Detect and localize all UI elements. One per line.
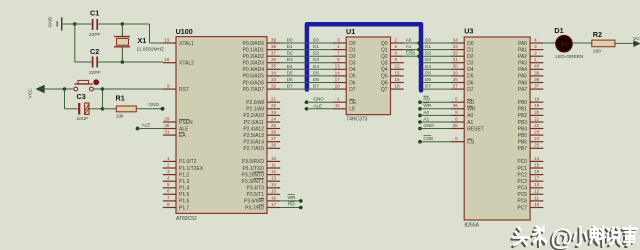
U1 pin 3 D0 xyxy=(333,37,356,46)
U3 pin 36 WR xyxy=(451,103,476,112)
svg-text:18: 18 xyxy=(534,97,540,102)
svg-text:38: 38 xyxy=(271,44,277,49)
svg-text:P2.0/A8: P2.0/A8 xyxy=(246,100,264,106)
power terminal GND (right of R1) xyxy=(149,102,165,111)
svg-text:D5: D5 xyxy=(349,74,356,80)
svg-text:A0: A0 xyxy=(423,110,429,115)
junction node B (XTAL1 net) xyxy=(121,22,125,26)
junction node E xyxy=(101,87,105,91)
svg-text:ALE: ALE xyxy=(142,123,151,128)
svg-text:40: 40 xyxy=(534,64,540,69)
U3 pin 2 PA2 xyxy=(518,51,543,60)
svg-text:Q2: Q2 xyxy=(381,54,388,60)
svg-text:P2.4/A12: P2.4/A12 xyxy=(243,126,264,132)
svg-text:P3.0/RXD: P3.0/RXD xyxy=(242,159,265,165)
U100 pin 9 RST xyxy=(163,84,189,93)
U100 pin 6 P1.5 xyxy=(163,189,190,198)
svg-text:D0: D0 xyxy=(349,41,356,47)
svg-text:D7: D7 xyxy=(425,84,431,89)
svg-text:D1: D1 xyxy=(313,44,319,49)
wire net D6 from U100 P0.6 to U1 D6 xyxy=(280,82,333,84)
svg-text:19: 19 xyxy=(534,103,540,108)
U100 pin 34 P0.5/AD5 xyxy=(243,70,281,79)
svg-text:P0.7/AD7: P0.7/AD7 xyxy=(243,87,265,93)
svg-text:D7: D7 xyxy=(349,87,356,93)
U3 pin 12 PC5 xyxy=(517,189,543,198)
svg-text:RD: RD xyxy=(467,100,475,106)
svg-text:GND: GND xyxy=(48,16,54,27)
svg-text:PC0: PC0 xyxy=(517,159,527,165)
svg-text:P0.1/AD1: P0.1/AD1 xyxy=(243,47,265,53)
svg-text:P0.2/AD2: P0.2/AD2 xyxy=(243,54,265,60)
svg-text:R1: R1 xyxy=(116,94,125,103)
svg-text:15: 15 xyxy=(271,189,277,194)
svg-text:RESET: RESET xyxy=(467,126,484,132)
svg-text:P3.4/T0: P3.4/T0 xyxy=(246,186,264,192)
U3 pin 22 PB4 xyxy=(518,123,544,132)
svg-text:1: 1 xyxy=(167,156,170,161)
net label A0 xyxy=(406,37,412,42)
svg-text:D5: D5 xyxy=(313,70,319,75)
U100 pin 12 P3.2/INT0 xyxy=(241,169,280,178)
svg-text:33: 33 xyxy=(453,44,459,49)
wire net A1 from U1 Q1 xyxy=(404,49,419,51)
svg-text:14: 14 xyxy=(534,156,540,161)
wire R1 to GND terminal xyxy=(136,108,162,110)
U3 pin 8 A1 xyxy=(451,116,474,125)
U3 pin 14 PC0 xyxy=(517,156,543,165)
svg-text:D5: D5 xyxy=(467,74,474,80)
wire to U100 XTAL1 pin xyxy=(150,42,163,44)
U100 pin 11 P3.1/TXD xyxy=(242,162,280,171)
svg-text:32: 32 xyxy=(271,84,277,89)
power symbol VCC (right) xyxy=(633,36,640,46)
svg-text:35: 35 xyxy=(453,123,459,128)
svg-text:16: 16 xyxy=(534,169,540,174)
node A0 wire end xyxy=(417,41,421,45)
svg-text:D4: D4 xyxy=(287,64,293,69)
svg-text:GND: GND xyxy=(149,102,160,107)
net label D0 (at U3) xyxy=(425,38,431,43)
svg-text:PB1: PB1 xyxy=(518,107,528,113)
wire button to node E xyxy=(93,88,102,90)
node CSB wire end xyxy=(417,54,421,58)
svg-text:D3: D3 xyxy=(313,57,319,62)
svg-text:WR: WR xyxy=(288,195,296,200)
svg-text:6: 6 xyxy=(167,189,170,194)
svg-text:5: 5 xyxy=(455,97,458,102)
svg-text:12: 12 xyxy=(534,189,540,194)
svg-text:D3: D3 xyxy=(467,61,474,67)
net label D7 (left) xyxy=(287,84,293,89)
svg-text:Q1: Q1 xyxy=(381,47,388,53)
net label D5 (at U3) xyxy=(425,70,431,75)
U1 pin 8 D3 xyxy=(333,57,356,66)
U100 pin 28 P2.7/A15 xyxy=(243,143,280,152)
svg-text:PC1: PC1 xyxy=(517,166,527,172)
svg-text:C2: C2 xyxy=(90,47,99,56)
capacitor C1 xyxy=(89,9,101,39)
svg-text:D5: D5 xyxy=(425,70,431,75)
U100 pin 8 P1.7 xyxy=(163,202,190,211)
svg-text:34: 34 xyxy=(453,37,459,42)
svg-text:ALE: ALE xyxy=(179,126,189,132)
svg-text:18: 18 xyxy=(335,84,341,89)
svg-text:37: 37 xyxy=(534,84,540,89)
svg-text:17: 17 xyxy=(271,202,277,207)
svg-text:39: 39 xyxy=(534,70,540,75)
svg-text:AT89C52: AT89C52 xyxy=(176,216,197,222)
U3 pin 24 PB6 xyxy=(518,136,544,145)
net label D2 (left) xyxy=(287,51,293,56)
button actuator red dot xyxy=(94,80,99,85)
net label D6 (left) xyxy=(287,77,293,82)
U3 pin 34 D0 xyxy=(451,37,474,46)
svg-text:X1: X1 xyxy=(138,36,147,45)
net label D7 (at U1) xyxy=(313,84,319,89)
U100 pin 33 P0.6/AD6 xyxy=(243,77,281,86)
svg-text:XTAL1: XTAL1 xyxy=(179,41,194,47)
U3 pin 19 PB1 xyxy=(518,103,544,112)
wire node E to node F xyxy=(102,89,104,109)
power symbol VCC (left) xyxy=(28,85,45,98)
svg-text:RD: RD xyxy=(423,97,430,102)
svg-text:21: 21 xyxy=(271,97,277,102)
svg-text:D0: D0 xyxy=(287,38,293,43)
svg-text:P1.7: P1.7 xyxy=(179,205,190,211)
svg-text:P1.4: P1.4 xyxy=(179,186,190,192)
svg-text:5: 5 xyxy=(167,182,170,187)
U3 pin 20 PB2 xyxy=(518,110,544,119)
U100 pin 36 P0.3/AD3 xyxy=(243,57,281,66)
svg-text:WR: WR xyxy=(423,103,431,108)
wire node E to U100 RST pin xyxy=(103,88,163,90)
svg-text:PSEN: PSEN xyxy=(179,120,193,126)
U100 pin 38 P0.1/AD1 xyxy=(243,44,281,53)
wire net A0 to U3 xyxy=(420,114,451,116)
svg-text:24: 24 xyxy=(534,136,540,141)
node WR wire start (U3) xyxy=(418,107,422,111)
svg-text:3: 3 xyxy=(534,44,537,49)
svg-text:10: 10 xyxy=(271,156,277,161)
svg-text:9: 9 xyxy=(455,110,458,115)
svg-text:P0.5/AD5: P0.5/AD5 xyxy=(243,74,265,80)
wire R2 to VCC terminal xyxy=(615,42,634,44)
net label D1 (at U3) xyxy=(425,44,431,49)
svg-text:34: 34 xyxy=(271,70,277,75)
svg-text:8255A: 8255A xyxy=(465,223,480,229)
watermark text (toutiao @xiaokui shuoshi) xyxy=(511,224,636,250)
U3 pin 40 PA4 xyxy=(518,64,543,73)
crystal X1 xyxy=(114,24,164,62)
svg-text:4: 4 xyxy=(534,37,537,42)
svg-text:D0: D0 xyxy=(313,38,319,43)
svg-text:A0: A0 xyxy=(406,37,412,42)
wire net D5 into U3 D5 xyxy=(423,75,451,77)
svg-text:24: 24 xyxy=(271,116,277,121)
wire net WR to U3 xyxy=(420,108,451,110)
svg-text:D1: D1 xyxy=(425,44,431,49)
svg-text:GND: GND xyxy=(313,97,324,102)
svg-text:25: 25 xyxy=(534,143,540,148)
resistor R2 xyxy=(592,30,615,55)
U3 pin 32 D2 xyxy=(451,51,474,60)
node CSB wire start (U3) xyxy=(418,140,422,144)
U3 pin 5 RD xyxy=(451,97,475,106)
net label WR (overline) xyxy=(288,195,296,200)
wire net A1 to U3 xyxy=(420,121,451,123)
svg-text:16: 16 xyxy=(271,195,277,200)
net label A1 xyxy=(406,44,412,49)
svg-text:Q6: Q6 xyxy=(381,80,388,86)
U100 pin 1 P1.0/T2 xyxy=(163,156,197,165)
U100 pin 31 EA xyxy=(163,130,187,139)
U3 pin 29 D5 xyxy=(451,70,474,79)
svg-text:P2.1/A9: P2.1/A9 xyxy=(246,107,264,113)
wire node D down to C3 xyxy=(64,89,66,109)
wire net CSB to U3 xyxy=(420,141,451,143)
wire net D0 from U100 P0.0 to U1 D0 xyxy=(280,42,333,44)
svg-text:15: 15 xyxy=(534,162,540,167)
svg-text:P1.2: P1.2 xyxy=(179,172,190,178)
svg-text:30: 30 xyxy=(164,123,170,128)
svg-text:9: 9 xyxy=(167,84,170,89)
wire net D3 into U3 D3 xyxy=(423,62,451,64)
svg-text:Q0: Q0 xyxy=(381,41,388,47)
wire net D1 into U3 D1 xyxy=(423,49,451,51)
svg-text:22: 22 xyxy=(534,123,540,128)
net label D7 (at U3) xyxy=(425,84,431,89)
svg-text:4: 4 xyxy=(337,44,340,49)
svg-text:A0: A0 xyxy=(467,113,473,119)
net label D4 (at U1) xyxy=(313,64,319,69)
wire D1 to R2 xyxy=(572,42,592,44)
wire U3 PA0 to D1 xyxy=(543,42,556,44)
U1 pin 17 D6 xyxy=(333,77,356,86)
wire net D3 from U100 P0.3 to U1 D3 xyxy=(280,62,333,64)
U1 pin 9 Q3 xyxy=(381,57,404,66)
svg-text:D0: D0 xyxy=(425,38,431,43)
junction node C (XTAL2 net) xyxy=(121,60,125,64)
net label D2 (at U1) xyxy=(313,51,319,56)
U100 pin 22 P2.1/A9 xyxy=(246,103,280,112)
svg-text:PA7: PA7 xyxy=(518,87,527,93)
node A0 wire start (U3) xyxy=(418,114,422,118)
net label D1 (left) xyxy=(287,44,293,49)
svg-text:A1: A1 xyxy=(467,120,473,126)
net label WR (at U3) xyxy=(423,103,431,108)
svg-text:RD: RD xyxy=(288,202,295,207)
net label D3 (at U1) xyxy=(313,57,319,62)
wire net CSB from U1 Q2 xyxy=(404,55,419,57)
U100 pin 13 P3.3/INT1 xyxy=(241,176,280,185)
IC U100 body xyxy=(176,37,267,214)
U3 pin 31 D3 xyxy=(451,57,474,66)
net label A1 (at U3) xyxy=(423,116,429,121)
net label D5 (at U1) xyxy=(313,70,319,75)
svg-text:31: 31 xyxy=(453,57,459,62)
junction node F xyxy=(101,107,105,111)
wire ALE to U1 LE xyxy=(307,108,334,110)
svg-text:D4: D4 xyxy=(425,64,431,69)
svg-text:D7: D7 xyxy=(467,87,474,93)
svg-text:3: 3 xyxy=(167,169,170,174)
U3 pin 9 A0 xyxy=(451,110,474,119)
net label ALE (at U1 LE) xyxy=(313,103,322,108)
svg-text:10k: 10k xyxy=(116,114,124,120)
svg-text:D4: D4 xyxy=(313,64,319,69)
svg-text:P3.5/T1: P3.5/T1 xyxy=(246,192,264,198)
svg-text:P3.3/INT1: P3.3/INT1 xyxy=(241,179,264,185)
svg-text:Q5: Q5 xyxy=(381,74,388,80)
wire net D7 from U100 P0.7 to U1 D7 xyxy=(280,88,333,90)
U1 pin 12 Q4 xyxy=(381,64,404,73)
U100 pin 19 XTAL1 xyxy=(163,37,194,46)
U100 pin 37 P0.2/AD2 xyxy=(243,51,281,60)
svg-text:23: 23 xyxy=(271,110,277,115)
svg-text:1: 1 xyxy=(337,97,340,102)
U3 pin 18 PB0 xyxy=(518,97,544,106)
wire C1 to node B xyxy=(97,23,122,25)
svg-text:29: 29 xyxy=(453,70,459,75)
svg-text:28: 28 xyxy=(271,143,277,148)
net label A0 (at U3) xyxy=(423,110,429,115)
svg-text:7: 7 xyxy=(337,51,340,56)
svg-text:CSB: CSB xyxy=(423,136,433,141)
svg-text:PB3: PB3 xyxy=(518,120,528,126)
U100 pin 27 P2.6/A14 xyxy=(243,136,280,145)
IC U1 body xyxy=(346,37,390,115)
U1 pin 6 Q2 xyxy=(381,51,404,60)
svg-text:17: 17 xyxy=(335,77,341,82)
svg-text:29: 29 xyxy=(164,116,170,121)
wire net A0 from U1 Q0 xyxy=(404,42,419,44)
svg-text:20: 20 xyxy=(534,110,540,115)
svg-text:P0.3/AD3: P0.3/AD3 xyxy=(243,61,265,67)
U100 pin 30 ALE xyxy=(163,123,189,132)
svg-text:P3.2/INT0: P3.2/INT0 xyxy=(241,172,264,178)
svg-text:D6: D6 xyxy=(287,77,293,82)
svg-text:D2: D2 xyxy=(425,51,431,56)
svg-text:WR: WR xyxy=(467,107,476,113)
wire net D6 into U3 D6 xyxy=(423,82,451,84)
svg-text:P2.3/A11: P2.3/A11 xyxy=(244,120,264,126)
wire node F to R1 xyxy=(103,108,117,110)
svg-text:P2.5/A13: P2.5/A13 xyxy=(243,133,264,139)
svg-text:PA1: PA1 xyxy=(518,47,527,53)
IC U3 refdes label xyxy=(464,27,473,36)
U1 pin 13 D4 xyxy=(333,64,356,73)
U3 pin 10 PC7 xyxy=(517,202,543,211)
U1 pin 7 D2 xyxy=(333,51,356,60)
svg-text:30: 30 xyxy=(453,64,459,69)
wire node A down to C2 row xyxy=(74,24,76,62)
U1 pin 1 OE xyxy=(333,97,357,106)
svg-text:22PF: 22PF xyxy=(89,32,101,38)
svg-text:P0.0/AD0: P0.0/AD0 xyxy=(243,41,265,47)
node A1 wire start (U3) xyxy=(418,120,422,124)
U100 pin 17 P3.7/RD xyxy=(245,202,280,211)
svg-text:10UF: 10UF xyxy=(77,116,89,122)
svg-text:12: 12 xyxy=(395,64,401,69)
svg-text:11: 11 xyxy=(534,195,539,200)
svg-text:OE: OE xyxy=(349,100,357,106)
svg-text:D2: D2 xyxy=(287,51,293,56)
svg-text:PA3: PA3 xyxy=(518,61,527,67)
svg-text:26: 26 xyxy=(271,130,277,135)
svg-text:PB5: PB5 xyxy=(518,133,528,139)
svg-text:U1: U1 xyxy=(346,27,355,36)
U100 pin 21 P2.0/A8 xyxy=(246,97,280,106)
svg-text:PB7: PB7 xyxy=(518,146,528,152)
svg-text:8: 8 xyxy=(337,57,340,62)
U3 pin 33 D1 xyxy=(451,44,474,53)
svg-text:12: 12 xyxy=(271,169,277,174)
U100 pin 32 P0.7/AD7 xyxy=(243,84,281,93)
U1 pin 19 Q7 xyxy=(381,84,404,93)
svg-text:LE: LE xyxy=(349,107,356,113)
svg-text:39: 39 xyxy=(271,37,277,42)
svg-text:11: 11 xyxy=(335,103,340,108)
node WR wire end xyxy=(299,199,303,203)
wire C3 to node F xyxy=(89,108,103,110)
U3 pin 27 D7 xyxy=(451,84,474,93)
U1 pin 5 Q1 xyxy=(381,44,404,53)
svg-text:28: 28 xyxy=(453,77,459,82)
svg-text:D4: D4 xyxy=(467,67,474,73)
svg-text:D4: D4 xyxy=(349,67,356,73)
U3 pin 6 CS xyxy=(451,136,475,145)
U1 pin 14 D5 xyxy=(333,70,356,79)
svg-text:PA0: PA0 xyxy=(518,41,527,47)
svg-text:D3: D3 xyxy=(425,57,431,62)
net label RD (overline) xyxy=(288,201,295,206)
net label D6 (at U1) xyxy=(313,77,319,82)
svg-text:14: 14 xyxy=(271,182,277,187)
svg-text:31: 31 xyxy=(164,130,170,135)
svg-text:7: 7 xyxy=(167,195,170,200)
U3 pin 15 PC1 xyxy=(517,162,543,171)
svg-text:P1.6: P1.6 xyxy=(179,199,190,205)
U3 pin 39 PA5 xyxy=(518,70,543,79)
svg-text:25: 25 xyxy=(271,123,277,128)
svg-text:D3: D3 xyxy=(349,61,356,67)
U100 pin 2 P1.1/T2EX xyxy=(163,162,204,171)
U3 pin 35 RESET xyxy=(451,123,484,132)
svg-text:35: 35 xyxy=(271,64,277,69)
U1 pin 2 Q0 xyxy=(381,37,404,46)
svg-text:2: 2 xyxy=(395,37,398,42)
svg-text:P2.6/A14: P2.6/A14 xyxy=(243,140,264,146)
net label D4 (left) xyxy=(287,64,293,69)
svg-text:P3.7/RD: P3.7/RD xyxy=(245,205,264,211)
svg-text:R2: R2 xyxy=(593,30,602,39)
svg-text:27: 27 xyxy=(271,136,277,141)
svg-text:2: 2 xyxy=(167,162,170,167)
svg-text:100: 100 xyxy=(593,49,601,55)
svg-text:RST: RST xyxy=(179,87,189,93)
svg-text:A1: A1 xyxy=(406,44,412,49)
wire to C2 xyxy=(75,61,92,63)
net label D0 (left) xyxy=(287,38,293,43)
svg-text:Q7: Q7 xyxy=(381,87,388,93)
net label GND (at U1 OE) xyxy=(313,97,324,102)
wire net D4 into U3 D4 xyxy=(423,68,451,70)
push button RESET switch xyxy=(74,80,93,91)
resistor R1 xyxy=(116,94,137,120)
LED D1 xyxy=(554,26,584,60)
svg-text:9: 9 xyxy=(395,57,398,62)
